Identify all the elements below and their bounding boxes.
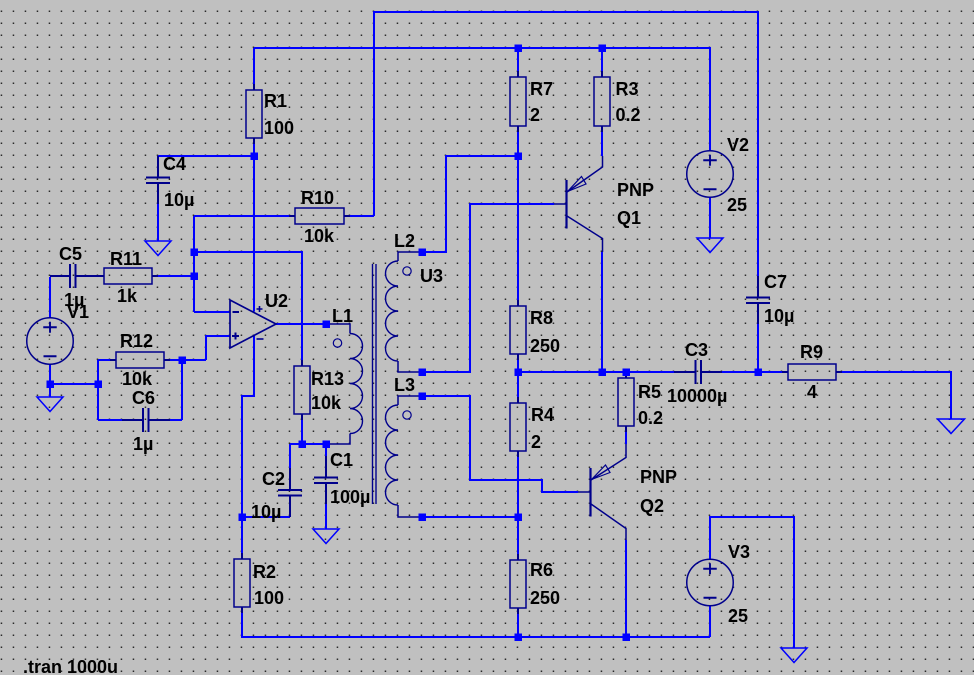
wire V2 bottom to ground <box>709 198 711 239</box>
svg-text:10µ: 10µ <box>164 190 194 210</box>
ground at C1 <box>313 529 339 544</box>
svg-text:25: 25 <box>728 606 748 626</box>
node junction L1 top pin <box>323 321 331 329</box>
wire R10 right to top rail <box>344 215 374 217</box>
resistor R7 pin stubs <box>517 71 519 132</box>
wire L3 top to Q2 base <box>422 396 578 492</box>
svg-text:R12: R12 <box>120 331 153 351</box>
resistor R1 <box>246 90 262 138</box>
resistor R5 <box>618 378 634 426</box>
svg-text:10k: 10k <box>311 393 342 413</box>
svg-text:250: 250 <box>530 588 560 608</box>
svg-text:R10: R10 <box>301 188 334 208</box>
ground at V2 <box>697 238 723 253</box>
transistor Q1 emitter <box>567 156 603 192</box>
wire R11 right to junction <box>152 275 194 277</box>
wire L2 bottom to Q1 base <box>422 204 554 372</box>
svg-text:Q1: Q1 <box>617 208 641 228</box>
node junction Q2 collector rail <box>623 634 631 642</box>
voltage source V2 <box>687 151 734 198</box>
wire C1 top lead <box>325 444 327 456</box>
node junction R11 right x=194 y=276 <box>191 273 199 281</box>
svg-text:R5: R5 <box>638 382 661 402</box>
wire V3 top loop to ground <box>710 517 794 648</box>
svg-text:R9: R9 <box>800 342 823 362</box>
svg-text:.tran 1000u: .tran 1000u <box>23 657 118 675</box>
svg-text:U3: U3 <box>420 266 443 286</box>
svg-text:250: 250 <box>530 336 560 356</box>
svg-text:10µ: 10µ <box>251 502 281 522</box>
svg-text:C4: C4 <box>163 154 186 174</box>
svg-text:R3: R3 <box>616 79 639 99</box>
transistor Q2 collector <box>591 504 626 540</box>
wire R12 right to plus path <box>164 359 206 361</box>
capacitor C1 <box>314 456 338 504</box>
svg-text:R13: R13 <box>311 369 344 389</box>
node junction Q1 collector rail <box>599 369 607 377</box>
wire C7 bottom to output rail junction <box>757 324 759 372</box>
transistor Q1 base bar <box>565 180 567 229</box>
svg-text:10000µ: 10000µ <box>667 386 727 406</box>
transistor Q2 emitter arrow <box>592 465 611 480</box>
node junction R5 top <box>623 369 631 377</box>
node junction C2 bottom row <box>239 514 247 522</box>
resistor R2 <box>234 559 250 607</box>
wire R12 left lead <box>98 359 116 361</box>
wire C6 left column <box>97 360 99 420</box>
svg-text:R8: R8 <box>530 308 553 328</box>
node junction R7 bottom / L2 <box>515 153 523 161</box>
svg-text:V2: V2 <box>727 135 749 155</box>
wire C4 to R1 bottom junction <box>158 155 254 157</box>
svg-text:100: 100 <box>254 588 284 608</box>
resistor R12 pin stubs <box>110 359 170 361</box>
svg-text:R2: R2 <box>253 562 276 582</box>
wire op-amp V- pin jog down to R2 <box>242 336 254 559</box>
resistor R11 pin stubs <box>98 275 158 277</box>
node junction L3 top pin <box>419 393 427 401</box>
resistor R13 pin stubs <box>301 360 303 420</box>
resistor R7 <box>510 77 526 126</box>
wire R3 top stub <box>601 48 603 77</box>
svg-text:0.2: 0.2 <box>616 105 641 125</box>
svg-text:10k: 10k <box>122 369 153 389</box>
ground at C4 <box>145 241 171 256</box>
wire R8 bottom to R4 top <box>517 354 519 403</box>
wire C6 right lead <box>170 419 182 421</box>
svg-text:C5: C5 <box>59 244 82 264</box>
voltage source V1 <box>27 318 74 365</box>
svg-text:R4: R4 <box>531 405 554 425</box>
svg-text:C2: C2 <box>262 469 285 489</box>
wire C6 left lead <box>98 419 122 421</box>
wire op-amp output to L1 <box>276 323 326 325</box>
inductor L3 <box>386 405 399 505</box>
svg-text:C3: C3 <box>685 340 708 360</box>
svg-text:100: 100 <box>264 118 294 138</box>
wire top rail from R10 right up and across to C7 <box>374 12 758 276</box>
wire L1 bottom row y=444 <box>290 443 326 445</box>
svg-text:L3: L3 <box>394 375 415 395</box>
wire R3 bottom to Q1 emitter <box>601 132 603 156</box>
svg-text:10k: 10k <box>304 226 335 246</box>
resistor R4 <box>510 403 526 451</box>
resistor R10 pin stubs <box>289 215 350 217</box>
svg-text:100µ: 100µ <box>330 487 370 507</box>
resistor R10 <box>295 208 344 224</box>
svg-text:C6: C6 <box>132 388 155 408</box>
wire feedback row y=252 to R13 top <box>194 252 302 366</box>
wire R13 bottom <box>301 414 303 444</box>
op-amp U2 plus input mark <box>232 333 239 340</box>
svg-text:2: 2 <box>531 432 541 452</box>
resistor R4 pin stubs <box>517 397 519 457</box>
transistor Q1 base stub <box>554 203 566 205</box>
resistor R9 pin stubs <box>782 371 842 373</box>
svg-text:1µ: 1µ <box>133 434 153 454</box>
wire R2 bottom to bottom rail <box>242 607 710 637</box>
svg-text:R6: R6 <box>530 560 553 580</box>
svg-text:25: 25 <box>727 195 747 215</box>
node junction R13 bottom <box>299 441 307 449</box>
resistor R12 <box>116 352 164 368</box>
wire C1 bottom to ground <box>325 504 327 529</box>
node junction V1 row x=98 <box>95 381 103 389</box>
wire R5 top stub <box>625 372 627 378</box>
resistor R9 <box>788 364 836 380</box>
wire output rail y=372 left part <box>518 371 674 373</box>
op-amp U2 V- pin mark <box>257 338 264 340</box>
resistor R3 <box>594 77 610 126</box>
node junction feedback row x=194 y=252 <box>191 249 199 257</box>
wire R9 right to ground <box>836 372 951 419</box>
svg-text:C1: C1 <box>330 450 353 470</box>
resistor R6 pin stubs <box>517 554 519 614</box>
node junction R12 right <box>179 357 187 365</box>
node junction L2 bottom pin <box>419 369 427 377</box>
resistor R6 <box>510 560 526 608</box>
transistor Q2 base stub <box>578 491 590 493</box>
transistor Q2 base bar <box>589 468 591 517</box>
wire V3 bottom to rail <box>709 606 711 637</box>
capacitor C3 <box>674 360 722 384</box>
inductor L2 <box>386 261 399 361</box>
wire C4 bottom to ground <box>157 204 159 241</box>
node junction R8 bottom <box>515 369 523 377</box>
node junction V1 bottom <box>47 381 55 389</box>
node junction L2 top pin <box>419 249 427 257</box>
capacitor C7 <box>746 276 770 324</box>
wire C6 right column <box>181 360 183 420</box>
node junction C7 bottom <box>755 369 763 377</box>
svg-text:R7: R7 <box>530 79 553 99</box>
node junction L3 bottom pin <box>419 514 427 522</box>
transformer core <box>373 264 377 504</box>
resistor R11 <box>104 268 152 284</box>
resistor R8 <box>510 306 526 354</box>
wire L3 bottom to R6 top junction <box>422 516 518 518</box>
op-amp U2 <box>230 300 276 348</box>
ground at R9 <box>938 419 965 434</box>
wire R6 bottom to rail <box>517 608 519 637</box>
wire V1 bottom row to C6 column <box>50 383 98 385</box>
svg-text:Q2: Q2 <box>640 496 664 516</box>
wire R1 top stub <box>253 48 255 90</box>
svg-text:0.2: 0.2 <box>638 408 663 428</box>
svg-text:2: 2 <box>530 105 540 125</box>
node junction R3 top <box>599 45 607 53</box>
resistor R5 pin stubs <box>625 374 627 432</box>
svg-text:R11: R11 <box>110 249 142 269</box>
op-amp U2 minus input mark <box>233 311 240 313</box>
svg-text:4: 4 <box>807 382 817 402</box>
wire V1 top to C5 <box>49 277 51 318</box>
svg-text:R1: R1 <box>264 91 287 111</box>
svg-text:V3: V3 <box>728 542 750 562</box>
wire minus-input column x=194 <box>193 216 195 312</box>
svg-text:PNP: PNP <box>617 180 654 200</box>
voltage source V3 <box>687 559 734 606</box>
wire R7 top stub <box>517 48 519 77</box>
wire R5 bottom to Q2 emitter <box>625 432 627 444</box>
node junction R6 bottom rail <box>515 634 523 642</box>
wire C2 top lead <box>289 444 291 468</box>
svg-text:V1: V1 <box>67 302 89 322</box>
svg-text:10µ: 10µ <box>764 306 794 326</box>
capacitor C6 <box>122 408 170 432</box>
wire R7 bottom to R8 top <box>517 126 519 304</box>
wire R1 bottom to op-amp V+ pin <box>253 138 255 312</box>
ground at V1 <box>37 397 63 412</box>
node junction C1 top <box>323 441 331 449</box>
inductor L3 phase dot <box>403 411 411 419</box>
wire R10 left row <box>194 215 295 217</box>
capacitor C2 <box>278 468 302 517</box>
wire L2 top to R7 junction <box>422 156 518 252</box>
wire V1 bottom to ground <box>49 364 51 397</box>
svg-text:L2: L2 <box>394 231 415 251</box>
inductor L2 phase dot <box>403 267 411 275</box>
capacitor C4 <box>146 156 170 204</box>
wire C3 right to R9 <box>722 371 788 373</box>
node junction R7 top <box>515 45 523 53</box>
ground at V3 <box>781 648 807 663</box>
resistor R1 pin stubs <box>253 84 255 144</box>
svg-text:1k: 1k <box>117 286 138 306</box>
wire C2 bottom to rail y=516 <box>242 516 290 518</box>
wire minus input stub <box>194 311 230 313</box>
transistor Q2 emitter <box>591 444 626 480</box>
node junction R1 bottom / C4 <box>251 153 259 161</box>
wire plus input path <box>206 336 230 360</box>
resistor R13 <box>294 366 310 414</box>
resistor R3 pin stubs <box>601 71 603 132</box>
transistor Q1 collector <box>567 216 603 252</box>
svg-text:L1: L1 <box>332 306 353 326</box>
svg-text:U2: U2 <box>265 291 288 311</box>
resistor R2 pin stubs <box>241 553 243 613</box>
transistor Q1 emitter arrow <box>568 177 587 192</box>
wire R4 bottom to R6 top <box>517 451 519 560</box>
svg-text:C7: C7 <box>764 272 787 292</box>
inductor L2 leads <box>398 252 422 372</box>
op-amp U2 V+ pin mark <box>257 306 263 312</box>
node junction R6 top <box>515 514 523 522</box>
wire V+ rail y=47 from R1 top to V2 <box>254 48 710 151</box>
inductor L1 phase dot <box>333 339 341 347</box>
inductor L1 leads <box>326 324 350 444</box>
inductor L3 leads <box>398 396 422 517</box>
inductor L1 <box>350 334 363 434</box>
wire Q2 collector to bottom rail <box>625 540 627 637</box>
resistor R8 pin stubs <box>517 300 519 360</box>
svg-text:PNP: PNP <box>640 467 677 487</box>
capacitor C5 <box>50 264 98 288</box>
wire Q1 collector down to output rail <box>601 252 603 372</box>
